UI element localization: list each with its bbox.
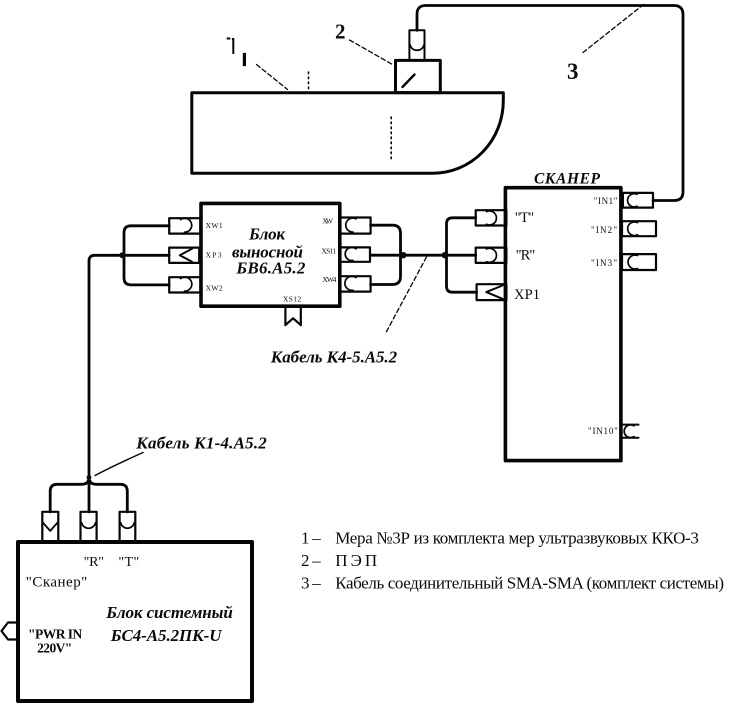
system unit plug "Сканер" (42, 512, 58, 541)
wire cable K4-5 middle horizontal (371, 254, 476, 257)
wire cable K4-5 bottom branch (XW4 side) (371, 255, 401, 284)
svg-text:XW4: XW4 (322, 275, 336, 284)
svg-text:Мера №3Р из комплекта мер ульт: Мера №3Р из комплекта мер ультразвуковых… (335, 529, 699, 548)
leader line for label 1 (257, 65, 288, 90)
transducer connector arc (410, 45, 424, 50)
scanner connector IN1 (623, 193, 653, 208)
scanner connector IN2 (622, 221, 656, 236)
leader line for cable K1-4 label (95, 453, 143, 476)
scanner connector "T" (476, 210, 507, 225)
junction dot right bundle (442, 252, 448, 258)
leader line for cable K4-5 label (386, 257, 427, 333)
scanner connector IN10 arc (624, 425, 634, 438)
svg-text:СКАНЕР: СКАНЕР (534, 171, 601, 188)
scanner connector "R" (476, 248, 507, 263)
svg-text:"R": "R" (516, 248, 536, 264)
svg-text:"Т": "Т" (515, 210, 535, 226)
scanner connector XP1 (477, 284, 507, 300)
system unit socket "R" (81, 512, 97, 541)
connector XW2 arc (181, 277, 192, 291)
svg-text:"IN3": "IN3" (591, 258, 617, 268)
remote unit connector XW1 (169, 218, 200, 233)
remote unit connector XS11 (right middle) (340, 247, 370, 261)
transducer SMA connector (409, 30, 424, 60)
scanner connector IN3 arc (628, 255, 637, 269)
leader line for label 2 (350, 40, 392, 64)
wire XW1 branch to bundle (124, 226, 169, 256)
scanner connector IN1 arc (628, 194, 637, 207)
remote unit connector XW2 (169, 277, 200, 292)
dotted mark above block surface (308, 72, 310, 89)
connector XW4 arc (345, 276, 356, 290)
remote unit connector XP3 (169, 248, 199, 263)
system unit box БС4-А5.2ПК-U (18, 542, 252, 701)
PWR IN plug symbol (2, 623, 19, 640)
scanner connector XP1 chevron (486, 286, 502, 299)
remote unit connector XW4 (right bottom) (340, 276, 371, 291)
svg-text:XW1: XW1 (206, 221, 223, 230)
svg-text:"R": "R" (84, 555, 104, 570)
connector XS11 arc (345, 247, 356, 260)
svg-text:XS12: XS12 (283, 295, 301, 304)
junction dot at cable split (87, 475, 92, 480)
transducer ПЭП body (396, 60, 441, 92)
remote unit connector XW3 (right top) (340, 218, 371, 234)
svg-text:"IN2": "IN2" (591, 225, 617, 235)
remote unit connector XS12 (bottom) (285, 308, 300, 325)
svg-text:"IN1": "IN1" (594, 196, 618, 206)
svg-text:3: 3 (301, 574, 310, 593)
connector XW1 arc (181, 218, 192, 232)
scanner connector IN2 arc (628, 222, 638, 236)
svg-text:XP3: XP3 (206, 251, 222, 260)
socket "R" arc (81, 523, 95, 529)
junction dot left of remote unit (119, 252, 125, 258)
svg-text:"IN10": "IN10" (588, 426, 618, 436)
plug chevron (43, 523, 58, 531)
scanner box (505, 188, 621, 461)
connector XP3 chevron (180, 249, 192, 262)
svg-text:Блок системный: Блок системный (105, 603, 233, 622)
cable 3 SMA-SMA wire (417, 6, 683, 201)
svg-text:–: – (311, 574, 321, 593)
leader line for label 3 (583, 5, 644, 53)
wire cable K4-5 top branch (XW3 side) (371, 225, 401, 255)
svg-text:Кабель соединительный SMA-SMA: Кабель соединительный SMA-SMA (комплект … (335, 574, 724, 593)
connector XW3 arc (346, 218, 356, 232)
scanner connector IN10 open lines (621, 425, 639, 438)
socket "T" arc (121, 523, 135, 529)
scanner connector "T" arc (487, 211, 497, 225)
callout number 1 (scanned skewed glyph) (227, 39, 246, 67)
svg-text:1: 1 (301, 529, 310, 548)
svg-text:2: 2 (301, 551, 310, 570)
svg-text:БС4-А5.2ПК-U: БС4-А5.2ПК-U (110, 626, 222, 645)
svg-text:–: – (311, 551, 321, 570)
scanner connector "R" arc (487, 248, 497, 262)
svg-text:3: 3 (567, 59, 579, 84)
svg-text:Кабель К4-5.А5.2: Кабель К4-5.А5.2 (270, 348, 398, 367)
system unit socket "T" (120, 512, 136, 541)
calibration block (мера №3Р) body (192, 93, 504, 173)
svg-text:2: 2 (335, 20, 346, 44)
svg-text:Блок: Блок (248, 225, 285, 244)
wire split middle branch to "R" socket (88, 477, 91, 512)
scanner connector IN3 (622, 254, 656, 270)
wire XW2 branch to bundle (124, 255, 169, 285)
svg-text:XW: XW (322, 217, 334, 226)
wire split left branch to "Сканер" plug (50, 477, 89, 512)
remote unit box БВ6.А5.2 (201, 203, 340, 306)
wire cable K4-5 scanner side T/XP1 branch (447, 218, 477, 292)
svg-text:–: – (311, 529, 321, 548)
svg-text:XP1: XP1 (514, 287, 540, 303)
svg-text:XS11: XS11 (321, 246, 336, 255)
svg-text:"Т": "Т" (118, 555, 139, 570)
svg-text:ПЭП: ПЭП (335, 551, 377, 570)
wire cable K1-4 main run from XP3 down to system unit (89, 255, 169, 477)
junction dot left bundle (400, 252, 406, 258)
svg-text:"Сканер": "Сканер" (26, 575, 88, 591)
transducer piezo element slash (403, 75, 415, 88)
dotted centre line inside block (390, 117, 392, 162)
svg-text:220V": 220V" (37, 641, 72, 656)
svg-text:Кабель К1-4.А5.2: Кабель К1-4.А5.2 (135, 433, 267, 452)
svg-text:БВ6.А5.2: БВ6.А5.2 (235, 259, 306, 278)
wire split right branch to "T" socket (89, 477, 127, 512)
svg-text:XW2: XW2 (206, 284, 223, 293)
svg-text:"PWR IN: "PWR IN (28, 627, 83, 642)
